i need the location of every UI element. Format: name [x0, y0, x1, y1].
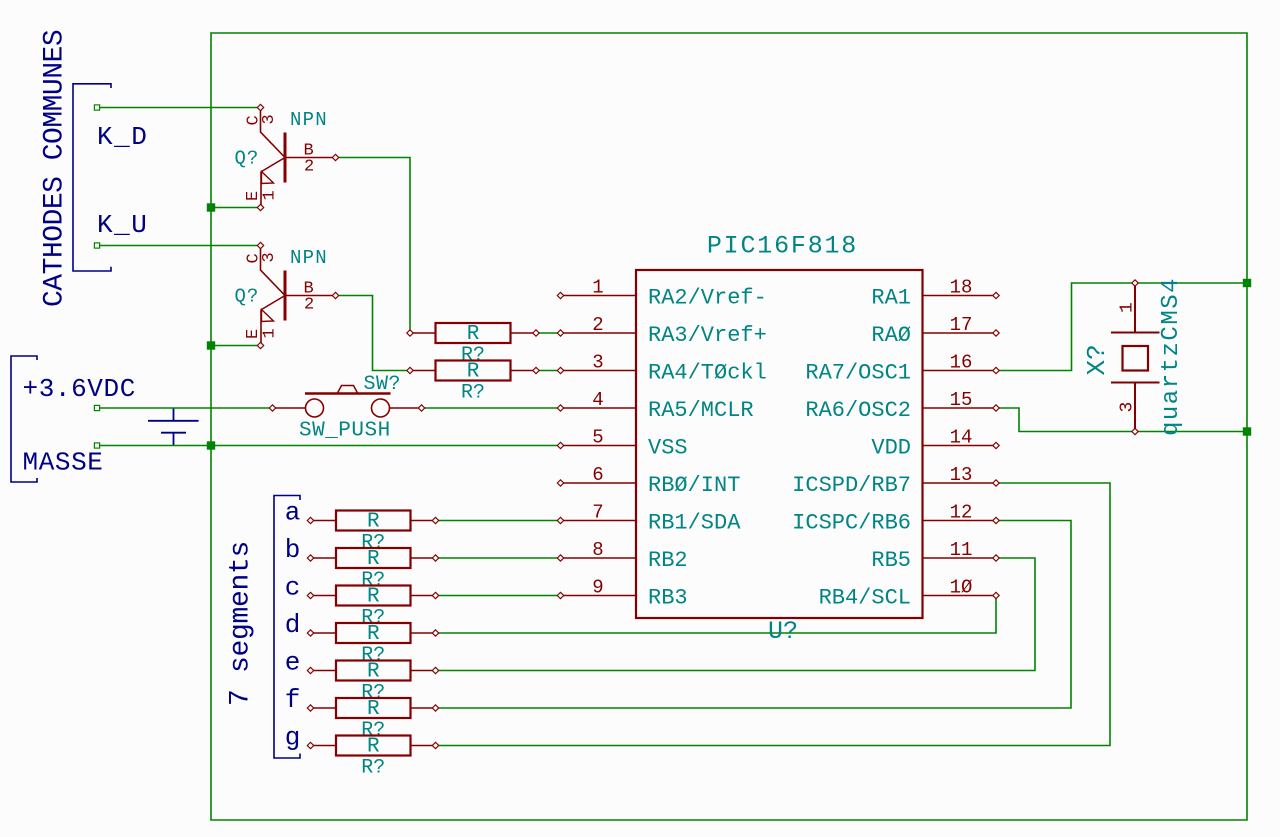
svg-text:4: 4: [592, 389, 603, 411]
svg-text:RBØ/INT: RBØ/INT: [648, 473, 740, 498]
wire R1 to pin 2: [536, 332, 561, 334]
svg-text:1: 1: [261, 190, 280, 200]
wire frame ground loop: [211, 33, 1247, 820]
transistor Q2: [257, 242, 338, 348]
pin 18 right stub: [923, 292, 1000, 298]
pin 13 right stub: [923, 480, 1000, 486]
label +3.6VDC: [23, 374, 136, 404]
ref label Rc R?: [361, 607, 385, 630]
svg-text:1Ø: 1Ø: [950, 577, 973, 599]
switch SW1 SW_PUSH: [269, 386, 424, 418]
IC U1 PIC16F818 body: [636, 270, 923, 618]
svg-text:+3.6VDC: +3.6VDC: [23, 374, 136, 404]
junction MASSE frame: [207, 441, 215, 449]
label U?: [768, 617, 798, 646]
pin 1Ø right stub: [923, 592, 1000, 598]
label Q1 Q?: [235, 148, 260, 170]
resistor Rg: [307, 736, 438, 756]
resistor Rd: [307, 623, 438, 643]
ref label Ra R?: [361, 532, 385, 555]
pin number 17: [950, 314, 973, 336]
pin name RB5: [871, 548, 911, 573]
wire segment f net: [436, 521, 1072, 709]
pin number 6: [592, 464, 603, 486]
wire segment c net: [436, 595, 561, 597]
svg-text:Q?: Q?: [235, 286, 260, 308]
wire OSC2 to crystal pin 3: [996, 408, 1247, 432]
svg-text:ICSPD/RB7: ICSPD/RB7: [792, 473, 911, 498]
pin 14 right stub: [923, 442, 1000, 448]
label CATHODES COMMUNES: [40, 30, 71, 307]
pin 2 left stub: [557, 330, 636, 336]
pin number 18: [950, 277, 973, 299]
junction crystal bottom frame: [1243, 427, 1251, 435]
pin label crystal 1: [1118, 302, 1138, 313]
wire segment b net: [436, 557, 561, 559]
svg-text:9: 9: [592, 577, 603, 599]
wire Q2 base to R2: [336, 296, 411, 371]
svg-text:1: 1: [592, 277, 603, 299]
svg-text:1: 1: [1118, 302, 1138, 313]
label K_U: [97, 210, 148, 240]
label segment g: [285, 723, 301, 753]
svg-text:ICSPC/RB6: ICSPC/RB6: [792, 511, 911, 536]
pin name RB2: [648, 548, 688, 573]
value label Rd R: [367, 623, 380, 646]
svg-text:RB5: RB5: [871, 548, 911, 573]
label segment c: [285, 573, 301, 603]
label segment f: [285, 685, 301, 715]
svg-text:b: b: [285, 535, 301, 565]
svg-text:e: e: [285, 648, 301, 678]
pin name RA1: [871, 286, 911, 311]
label segment d: [285, 610, 301, 640]
svg-text:R: R: [367, 736, 380, 759]
pin 5 left stub: [557, 442, 636, 448]
bracket power group: [11, 356, 37, 482]
svg-text:NPN: NPN: [290, 109, 328, 131]
svg-text:R: R: [467, 323, 480, 346]
svg-text:K_U: K_U: [97, 210, 148, 240]
svg-text:RA6/OSC2: RA6/OSC2: [805, 398, 911, 423]
ref label Rf R?: [361, 719, 385, 742]
resistor Re: [307, 661, 438, 681]
ref label R2 R?: [461, 382, 485, 405]
value label Re R: [367, 661, 380, 684]
svg-text:8: 8: [592, 539, 603, 561]
label Q1 NPN: [290, 109, 328, 131]
pin 6 left stub: [557, 480, 636, 486]
pin name ICSPD/RB7: [792, 473, 911, 498]
svg-text:R: R: [367, 511, 380, 534]
pin 4 left stub: [557, 405, 636, 411]
svg-text:2: 2: [592, 314, 603, 336]
pin number 5: [592, 427, 603, 449]
value label Ra R: [367, 511, 380, 534]
pin number 11: [950, 539, 973, 561]
wire segment d net: [436, 596, 997, 634]
svg-text:3: 3: [260, 114, 279, 124]
svg-text:16: 16: [950, 352, 973, 374]
pin labels Q1 C3: [245, 114, 280, 125]
wire segment g net: [436, 483, 1111, 746]
label 7 segments: [226, 541, 257, 706]
svg-text:R: R: [467, 361, 480, 384]
svg-text:R: R: [367, 623, 380, 646]
pin name RA6/OSC2: [805, 398, 911, 423]
svg-text:R?: R?: [461, 382, 485, 405]
resistor Ra: [307, 511, 438, 531]
wire switch to pin 4: [422, 407, 561, 409]
svg-text:2: 2: [304, 158, 314, 177]
svg-text:7 segments: 7 segments: [226, 541, 257, 706]
wire K_U net: [94, 243, 260, 248]
pin 3 left stub: [557, 367, 636, 373]
svg-text:1: 1: [261, 328, 280, 338]
label quartzCMS4: [1158, 277, 1185, 436]
pin number 15: [950, 389, 973, 411]
svg-text:RA2/Vref-: RA2/Vref-: [648, 286, 767, 311]
wire MASSE to pin 5: [94, 443, 560, 448]
pin number 4: [592, 389, 603, 411]
wire +3.6VDC to switch: [94, 405, 272, 410]
svg-text:NPN: NPN: [290, 247, 328, 269]
pin name RB1/SDA: [648, 511, 741, 536]
svg-text:RA7/OSC1: RA7/OSC1: [805, 361, 911, 386]
pin number 16: [950, 352, 973, 374]
pin name RA2/Vref-: [648, 286, 767, 311]
ref label Rg R?: [361, 757, 385, 780]
svg-text:12: 12: [950, 502, 973, 524]
svg-text:RA1: RA1: [871, 286, 911, 311]
resistor R1: [407, 323, 539, 343]
pin number 9: [592, 577, 603, 599]
svg-text:d: d: [285, 610, 301, 640]
label X?: [1082, 344, 1112, 375]
pin 7 left stub: [557, 517, 636, 523]
pin name RA4/TØckl: [648, 361, 767, 386]
svg-text:quartzCMS4: quartzCMS4: [1158, 277, 1185, 436]
label Q2 Q?: [235, 286, 260, 308]
wire Q1 emitter to frame: [211, 207, 261, 209]
pin name RB3: [648, 586, 688, 611]
junction Q2 emitter: [207, 341, 215, 349]
label SW_PUSH: [299, 420, 391, 443]
svg-text:15: 15: [950, 389, 973, 411]
svg-text:R: R: [367, 661, 380, 684]
pin name ICSPC/RB6: [792, 511, 911, 536]
pin labels Q2 C3: [245, 252, 280, 263]
wire R2 to pin 3: [536, 370, 561, 372]
svg-text:VDD: VDD: [871, 436, 911, 461]
wire segment a net: [436, 520, 561, 522]
svg-text:3: 3: [592, 352, 603, 374]
label segment e: [285, 648, 301, 678]
svg-text:RA3/Vref+: RA3/Vref+: [648, 323, 767, 348]
battery BT1: [148, 408, 199, 446]
wire Q2 emitter to frame: [211, 345, 261, 347]
svg-text:RB3: RB3: [648, 586, 688, 611]
svg-text:a: a: [285, 498, 301, 528]
pin 12 right stub: [923, 517, 1000, 523]
wire segment e net: [436, 558, 1036, 671]
pin number 14: [950, 427, 973, 449]
svg-text:RA4/TØckl: RA4/TØckl: [648, 361, 767, 386]
pin 11 right stub: [923, 555, 1000, 561]
svg-text:R?: R?: [361, 757, 385, 780]
pin 16 right stub: [923, 367, 1000, 373]
svg-text:5: 5: [592, 427, 603, 449]
svg-text:U?: U?: [768, 617, 798, 646]
svg-text:14: 14: [950, 427, 973, 449]
svg-text:MASSE: MASSE: [23, 448, 104, 478]
svg-text:RB1/SDA: RB1/SDA: [648, 511, 741, 536]
wire Q1 base to R1: [336, 158, 411, 334]
resistor R2: [407, 361, 539, 381]
value label Rg R: [367, 736, 380, 759]
pin 15 right stub: [923, 405, 1000, 411]
junction Q1 emitter: [207, 203, 215, 211]
pin labels Q1 B2: [304, 142, 315, 177]
label MASSE: [23, 448, 104, 478]
pin number 8: [592, 539, 603, 561]
pin 8 left stub: [557, 555, 636, 561]
svg-text:13: 13: [950, 464, 973, 486]
svg-text:SW_PUSH: SW_PUSH: [299, 420, 391, 443]
pin number 12: [950, 502, 973, 524]
svg-text:RAØ: RAØ: [871, 323, 911, 348]
value label Rf R: [367, 698, 380, 721]
value label R1 R: [467, 323, 480, 346]
pin 9 left stub: [557, 592, 636, 598]
svg-text:3: 3: [260, 252, 279, 262]
svg-text:g: g: [285, 723, 301, 753]
resistor Rf: [307, 698, 438, 718]
pin name RA3/Vref+: [648, 323, 767, 348]
svg-text:7: 7: [592, 502, 603, 524]
label segment b: [285, 535, 301, 565]
pin name RBØ/INT: [648, 473, 740, 498]
resistor Rc: [307, 586, 438, 606]
svg-text:18: 18: [950, 277, 973, 299]
svg-text:VSS: VSS: [648, 436, 688, 461]
pin label crystal 3: [1118, 402, 1138, 413]
pin number 2: [592, 314, 603, 336]
wire OSC1 to crystal pin 1: [996, 283, 1247, 371]
resistor Rb: [307, 548, 438, 568]
svg-text:K_D: K_D: [97, 122, 148, 152]
svg-text:Q?: Q?: [235, 148, 260, 170]
pin 17 right stub: [923, 330, 1000, 336]
pin name VSS: [648, 436, 688, 461]
label K_D: [97, 122, 148, 152]
crystal X1 quartzCMS4: [1111, 280, 1160, 435]
svg-text:R: R: [367, 548, 380, 571]
ref label Rd R?: [361, 644, 385, 667]
value label R2 R: [467, 361, 480, 384]
pin 1 left stub: [557, 292, 636, 298]
svg-text:CATHODES COMMUNES: CATHODES COMMUNES: [40, 30, 71, 307]
svg-text:RB4/SCL: RB4/SCL: [819, 586, 911, 611]
pin name RA5/MCLR: [648, 398, 754, 423]
pin name RAØ: [871, 323, 911, 348]
value label Rb R: [367, 548, 380, 571]
svg-text:SW?: SW?: [364, 373, 402, 396]
svg-text:11: 11: [950, 539, 973, 561]
pin labels Q2 B2: [304, 280, 315, 315]
bracket 7 segments group: [274, 496, 300, 759]
pin number 7: [592, 502, 603, 524]
svg-text:3: 3: [1118, 402, 1138, 413]
pin number 1Ø: [950, 577, 973, 599]
svg-text:2: 2: [304, 296, 314, 315]
label segment a: [285, 498, 301, 528]
svg-text:X?: X?: [1082, 344, 1112, 375]
svg-text:R: R: [367, 586, 380, 609]
label Q2 NPN: [290, 247, 328, 269]
pin labels Q1 E1: [244, 190, 280, 201]
svg-text:RA5/MCLR: RA5/MCLR: [648, 398, 754, 423]
pin number 3: [592, 352, 603, 374]
pin number 1: [592, 277, 603, 299]
label SW?: [364, 373, 402, 396]
ref label R1 R?: [461, 344, 485, 367]
svg-text:f: f: [285, 685, 301, 715]
pin name VDD: [871, 436, 911, 461]
junction crystal top frame: [1243, 279, 1251, 287]
pin number 13: [950, 464, 973, 486]
ref label Rb R?: [361, 569, 385, 592]
svg-text:RB2: RB2: [648, 548, 688, 573]
pin labels Q2 E1: [244, 328, 280, 339]
value label Rc R: [367, 586, 380, 609]
svg-text:R: R: [367, 698, 380, 721]
bracket CATHODES COMMUNES group: [73, 84, 111, 271]
pin name RB4/SCL: [819, 586, 911, 611]
svg-text:PIC16F818: PIC16F818: [707, 232, 858, 261]
pin name RA7/OSC1: [805, 361, 911, 386]
wire K_D net: [94, 105, 260, 110]
svg-text:c: c: [285, 573, 301, 603]
svg-text:6: 6: [592, 464, 603, 486]
ref label Re R?: [361, 682, 385, 705]
svg-text:17: 17: [950, 314, 973, 336]
label PIC16F818: [707, 232, 858, 261]
transistor Q1: [257, 104, 338, 210]
